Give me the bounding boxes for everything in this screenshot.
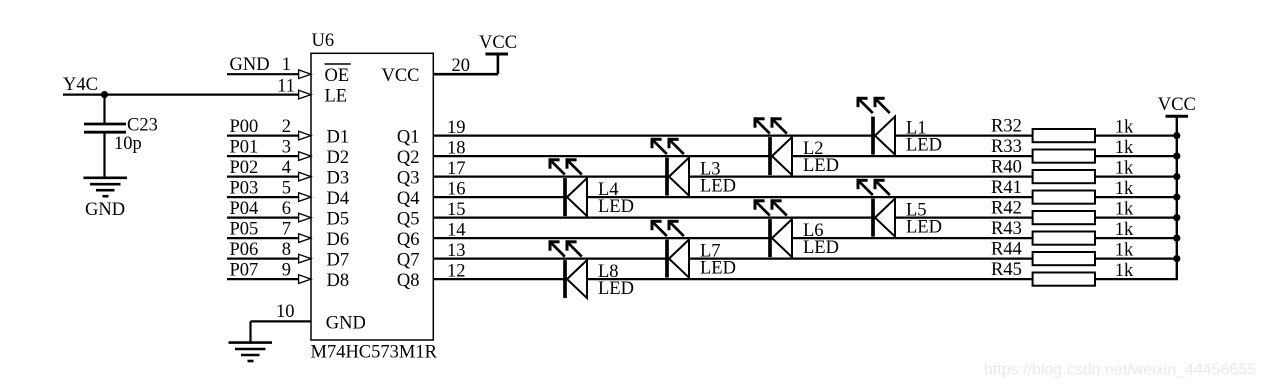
pin 4 input arrow — [299, 172, 311, 181]
wire LED L1 to resistor R32 — [895, 135, 1033, 137]
svg-text:R41: R41 — [991, 178, 1022, 198]
svg-text:P04: P04 — [230, 199, 259, 219]
value label 10p — [114, 134, 142, 154]
svg-text:U6: U6 — [312, 31, 335, 51]
LED L3 emission arrows — [651, 138, 684, 154]
ground symbol at pin 10 — [229, 343, 273, 361]
svg-text:1k: 1k — [1115, 199, 1134, 219]
label R40 — [991, 157, 1022, 177]
svg-text:D8: D8 — [327, 271, 350, 291]
svg-text:R44: R44 — [991, 239, 1022, 259]
ground label GND — [85, 200, 125, 220]
pin 2 wire (P00 to D1) — [227, 135, 301, 137]
svg-text:1k: 1k — [1115, 117, 1134, 137]
resistor R32 body — [1033, 129, 1095, 142]
pin 3 input arrow — [299, 152, 311, 161]
label R42 — [991, 198, 1022, 218]
wire LED L3 to resistor R40 — [689, 176, 1033, 178]
svg-text:Q6: Q6 — [397, 230, 420, 250]
wire LED L6 to resistor R43 — [792, 237, 1033, 239]
svg-text:LED: LED — [598, 197, 634, 217]
pin 20 wire to VCC — [433, 54, 498, 74]
pin number 10 — [276, 302, 295, 322]
label R43 — [991, 219, 1022, 239]
pin number 2 — [282, 117, 291, 137]
pin number 14 — [447, 221, 466, 241]
junction dot on VCC bus row 2 — [1173, 153, 1180, 160]
wire VCC bus vertical — [1176, 116, 1178, 279]
svg-text:R42: R42 — [991, 198, 1022, 218]
pin name LE — [325, 87, 348, 107]
LED L2 — [770, 137, 792, 175]
pin 4 wire (P02 to D3) — [227, 176, 301, 178]
label R41 — [991, 178, 1022, 198]
label R45 — [991, 260, 1022, 280]
ground symbol left — [84, 178, 128, 196]
junction dot on VCC bus row 4 — [1173, 194, 1180, 201]
pin name VCC (pin 20) — [381, 66, 419, 86]
svg-text:4: 4 — [282, 158, 291, 178]
wire R43 to VCC bus — [1095, 237, 1178, 239]
wire Q6 to LED L6 — [433, 237, 770, 239]
pin name Q3 — [397, 169, 420, 189]
label LED (L8) — [598, 279, 634, 299]
pin name D5 — [327, 210, 350, 230]
net label P06 — [230, 240, 259, 260]
svg-text:R45: R45 — [991, 260, 1022, 280]
svg-text:P02: P02 — [230, 158, 259, 178]
LED L3 — [667, 158, 689, 196]
wire LED L5 to resistor R42 — [895, 217, 1033, 219]
pin name D7 — [327, 251, 350, 271]
LED L2 emission arrows — [754, 117, 787, 133]
svg-text:D7: D7 — [327, 251, 350, 271]
label R32 — [991, 116, 1022, 136]
pin 11 input arrow — [299, 90, 311, 99]
svg-text:P00: P00 — [230, 117, 259, 137]
wire Q4 to LED L4 — [433, 196, 565, 198]
label R44 — [991, 239, 1022, 259]
svg-text:M74HC573M1R: M74HC573M1R — [311, 343, 438, 363]
svg-text:5: 5 — [282, 179, 291, 199]
svg-text:D4: D4 — [327, 189, 350, 209]
reference designator U6 — [312, 31, 335, 51]
wire R45 to VCC bus — [1095, 278, 1178, 280]
value 1k (R41) — [1115, 179, 1134, 199]
wire R41 to VCC bus — [1095, 196, 1178, 198]
pin number 12 — [447, 262, 466, 282]
svg-text:LED: LED — [906, 218, 942, 238]
VCC power symbol (right) — [1166, 115, 1189, 118]
pin 9 wire (P07 to D8) — [227, 278, 301, 280]
net label P07 — [230, 261, 259, 281]
pin number 15 — [447, 200, 466, 220]
pin name Q7 — [397, 251, 420, 271]
wire LED L4 to resistor R41 — [587, 196, 1033, 198]
svg-text:1k: 1k — [1115, 179, 1134, 199]
resistor R43 body — [1033, 232, 1095, 245]
pin 8 input arrow — [299, 254, 311, 263]
wire Q8 to LED L8 — [433, 278, 565, 280]
net label P00 — [230, 117, 259, 137]
pin 2 input arrow — [299, 131, 311, 140]
wire R32 to VCC bus — [1095, 135, 1178, 137]
svg-text:LED: LED — [803, 238, 839, 258]
pin 9 input arrow — [299, 275, 311, 284]
pin 6 wire (P04 to D5) — [227, 217, 301, 219]
pin name Q4 — [397, 189, 420, 209]
svg-text:P05: P05 — [230, 220, 259, 240]
svg-text:P06: P06 — [230, 240, 259, 260]
svg-text:Q4: Q4 — [397, 189, 420, 209]
pin 1 wire (GND to OE) — [227, 73, 301, 75]
svg-text:3: 3 — [282, 138, 291, 158]
svg-text:D3: D3 — [327, 169, 350, 189]
svg-text:GND: GND — [326, 313, 366, 333]
wire junction to C23 top — [103, 95, 105, 124]
wire R42 to VCC bus — [1095, 217, 1178, 219]
wire Q2 to LED L2 — [433, 155, 770, 157]
pin number 16 — [447, 180, 466, 200]
junction dot on VCC bus row 1 — [1173, 132, 1180, 139]
resistor R33 body — [1033, 150, 1095, 163]
LED L4 emission arrows — [549, 158, 582, 174]
pin 1 input arrow — [299, 70, 311, 79]
LED L8 — [565, 260, 587, 298]
resistor R44 body — [1033, 252, 1095, 265]
junction dot on VCC bus row 7 — [1173, 255, 1180, 262]
svg-text:R32: R32 — [991, 116, 1022, 136]
LED L6 — [770, 219, 792, 257]
pin name Q1 — [397, 128, 420, 148]
svg-text:10: 10 — [276, 302, 295, 322]
wire LED L8 to resistor R45 — [587, 278, 1033, 280]
svg-text:1: 1 — [282, 55, 291, 75]
pin name Q6 — [397, 230, 420, 250]
svg-text:10p: 10p — [114, 134, 142, 154]
svg-text:11: 11 — [277, 76, 295, 96]
net label P04 — [230, 199, 259, 219]
LED L1 — [873, 117, 895, 155]
resistor R41 body — [1033, 191, 1095, 204]
svg-text:R43: R43 — [991, 219, 1022, 239]
pin number 3 — [282, 138, 291, 158]
svg-text:8: 8 — [282, 240, 291, 260]
LED L7 — [667, 240, 689, 278]
VCC power symbol (pin 20) — [486, 53, 509, 56]
svg-text:https://blog.csdn.net/weixin_4: https://blog.csdn.net/weixin_44456655 — [984, 362, 1256, 379]
label LED (L1) — [906, 136, 942, 156]
svg-text:C23: C23 — [127, 116, 158, 136]
net label GND (pin 1) — [230, 55, 270, 75]
net label P01 — [230, 138, 259, 158]
svg-text:20: 20 — [452, 56, 471, 76]
label LED (L5) — [906, 218, 942, 238]
svg-text:LED: LED — [906, 136, 942, 156]
node Y4C label — [63, 75, 98, 95]
svg-text:Q5: Q5 — [397, 210, 420, 230]
label LED (L7) — [700, 259, 736, 279]
junction on Y4C net — [101, 91, 108, 98]
net label P02 — [230, 158, 259, 178]
pin number 8 — [282, 240, 291, 260]
pin name D3 — [327, 169, 350, 189]
svg-text:1k: 1k — [1115, 158, 1134, 178]
pin number 7 — [282, 220, 291, 240]
wire R33 to VCC bus — [1095, 155, 1178, 157]
svg-text:D6: D6 — [327, 230, 350, 250]
svg-text:Q8: Q8 — [397, 271, 420, 291]
value 1k (R42) — [1115, 199, 1134, 219]
capacitor C23 plates — [84, 124, 126, 132]
pin number 6 — [282, 199, 291, 219]
pin 8 wire (P06 to D7) — [227, 258, 301, 260]
svg-text:Q1: Q1 — [397, 128, 420, 148]
pin number 11 — [277, 76, 295, 96]
svg-text:Y4C: Y4C — [63, 75, 98, 95]
LED L4 — [565, 178, 587, 216]
svg-text:LE: LE — [325, 87, 348, 107]
label L1 — [906, 119, 927, 139]
pin number 20 — [452, 56, 471, 76]
wire Q3 to LED L3 — [433, 176, 667, 178]
pin number 13 — [447, 241, 466, 261]
svg-text:VCC: VCC — [1158, 95, 1196, 115]
pin name D6 — [327, 230, 350, 250]
pin name Q5 — [397, 210, 420, 230]
wire Y4C to pin 11 LE — [63, 93, 301, 95]
net label P03 — [230, 179, 259, 199]
pin name D1 — [327, 128, 350, 148]
wire R44 to VCC bus — [1095, 258, 1178, 260]
label R33 — [991, 137, 1022, 157]
pin number 18 — [447, 139, 466, 159]
LED L7 emission arrows — [651, 220, 684, 236]
svg-text:Q7: Q7 — [397, 251, 420, 271]
net label P05 — [230, 220, 259, 240]
svg-text:6: 6 — [282, 199, 291, 219]
svg-text:1k: 1k — [1115, 220, 1134, 240]
label L4 — [598, 180, 619, 200]
pin 7 wire (P05 to D6) — [227, 237, 301, 239]
resistor R45 body — [1033, 273, 1095, 286]
wire C23 bottom to ground — [103, 133, 105, 177]
svg-text:P07: P07 — [230, 261, 259, 281]
pin number 17 — [447, 159, 466, 179]
junction dot on VCC bus row 5 — [1173, 214, 1180, 221]
svg-text:LED: LED — [700, 177, 736, 197]
svg-text:LED: LED — [598, 279, 634, 299]
svg-text:1k: 1k — [1115, 240, 1134, 260]
part number M74HC573M1R — [311, 343, 438, 363]
label L3 — [700, 160, 721, 180]
resistor R42 body — [1033, 211, 1095, 224]
svg-text:P03: P03 — [230, 179, 259, 199]
pin number 4 — [282, 158, 291, 178]
pin name D4 — [327, 189, 350, 209]
pin 3 wire (P01 to D2) — [227, 155, 301, 157]
pin number 9 — [282, 261, 291, 281]
svg-text:Q3: Q3 — [397, 169, 420, 189]
pin name D2 — [327, 148, 350, 168]
LED L5 — [873, 199, 895, 237]
pin number 19 — [447, 118, 466, 138]
power label VCC (right) — [1158, 95, 1196, 115]
svg-text:1k: 1k — [1115, 261, 1134, 281]
svg-text:LED: LED — [700, 259, 736, 279]
wire Q5 to LED L5 — [433, 217, 873, 219]
svg-text:1k: 1k — [1115, 138, 1134, 158]
value 1k (R33) — [1115, 138, 1134, 158]
label LED (L2) — [803, 156, 839, 176]
svg-text:Q2: Q2 — [397, 148, 420, 168]
wire LED L7 to resistor R44 — [689, 258, 1033, 260]
value 1k (R40) — [1115, 158, 1134, 178]
pin 5 input arrow — [299, 193, 311, 202]
svg-text:D1: D1 — [327, 128, 350, 148]
wire Q1 to LED L1 — [433, 135, 873, 137]
resistor R40 body — [1033, 170, 1095, 183]
op IC U6 box M74HC573M1R — [311, 53, 433, 340]
LED L5 emission arrows — [857, 179, 890, 195]
junction dot on VCC bus row 3 — [1173, 173, 1180, 180]
label LED (L3) — [700, 177, 736, 197]
pin name Q2 — [397, 148, 420, 168]
pin name Q8 — [397, 271, 420, 291]
svg-text:D5: D5 — [327, 210, 350, 230]
value 1k (R43) — [1115, 220, 1134, 240]
watermark — [984, 362, 1256, 379]
label LED (L4) — [598, 197, 634, 217]
LED L8 emission arrows — [549, 240, 582, 256]
wire R40 to VCC bus — [1095, 176, 1178, 178]
value 1k (R32) — [1115, 117, 1134, 137]
junction dot on VCC bus row 6 — [1173, 235, 1180, 242]
value 1k (R45) — [1115, 261, 1134, 281]
svg-text:R40: R40 — [991, 157, 1022, 177]
value 1k (R44) — [1115, 240, 1134, 260]
wire Q7 to LED L7 — [433, 258, 667, 260]
svg-text:GND: GND — [230, 55, 270, 75]
svg-text:OE: OE — [325, 66, 350, 86]
LED L6 emission arrows — [754, 199, 787, 215]
pin 10 wire — [251, 321, 312, 342]
svg-text:9: 9 — [282, 261, 291, 281]
value label C23 — [127, 116, 158, 136]
svg-text:GND: GND — [85, 200, 125, 220]
pin number 1 — [282, 55, 291, 75]
power label VCC (top) — [479, 33, 517, 53]
svg-text:2: 2 — [282, 117, 291, 137]
svg-text:7: 7 — [282, 220, 291, 240]
label L2 — [803, 139, 824, 159]
svg-text:P01: P01 — [230, 138, 259, 158]
wire LED L2 to resistor R33 — [792, 155, 1033, 157]
label L8 — [598, 262, 619, 282]
pin 5 wire (P03 to D4) — [227, 196, 301, 198]
svg-text:LED: LED — [803, 156, 839, 176]
label L5 — [906, 201, 927, 221]
pin number 5 — [282, 179, 291, 199]
svg-text:D2: D2 — [327, 148, 350, 168]
pin 6 input arrow — [299, 213, 311, 222]
svg-text:VCC: VCC — [381, 66, 419, 86]
LED L1 emission arrows — [857, 97, 890, 113]
label LED (L6) — [803, 238, 839, 258]
svg-text:R33: R33 — [991, 137, 1022, 157]
pin name GND (pin 10) — [326, 313, 366, 333]
label L6 — [803, 221, 824, 241]
pin name OE with overline — [325, 64, 351, 86]
label L7 — [700, 242, 721, 262]
pin 7 input arrow — [299, 234, 311, 243]
svg-text:VCC: VCC — [479, 33, 517, 53]
pin name D8 — [327, 271, 350, 291]
